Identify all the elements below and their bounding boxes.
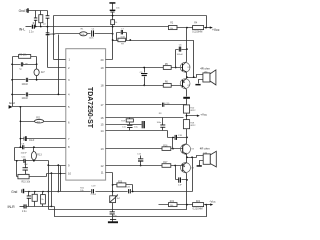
transistor Q1: [180, 62, 191, 73]
svg-text:R16: R16: [163, 145, 168, 147]
wire vA x48.3 down to rail1: [48, 166, 50, 210]
wire pin2: [48, 67, 66, 69]
capacitor row y64.3: [11, 62, 37, 70]
wire vD x58.3: [58, 166, 60, 192]
capacitor C19 on gnd row: [91, 185, 97, 196]
capacitor row A pin8: [15, 144, 66, 155]
capacitor C4: [89, 28, 95, 39]
wire pin18 row: [106, 85, 183, 86]
svg-text:R20: R20: [118, 181, 123, 183]
capacitor C20: [176, 166, 187, 187]
svg-text:0R22: 0R22: [190, 125, 196, 127]
transistor Q3: [181, 144, 195, 155]
mini network between pin16/pin14 rows: [121, 118, 138, 131]
svg-text:4R ohm: 4R ohm: [200, 146, 210, 150]
capacitor row pin3: [11, 78, 65, 86]
svg-text:IN-L: IN-L: [19, 27, 26, 31]
svg-text:IN-R: IN-R: [8, 205, 16, 209]
wire pin12 row: [106, 165, 183, 167]
svg-text:0R22: 0R22: [190, 110, 196, 112]
wire pin16 row: [106, 117, 184, 119]
wire bus3 x14.6: [14, 148, 16, 161]
capacitor C1 (IN-L coupling): [26, 23, 35, 34]
resistor R1 (oval): [80, 29, 87, 36]
resistor R2: [169, 22, 178, 30]
svg-text:18: 18: [101, 84, 105, 88]
resistor R20 row y184.9: [113, 181, 134, 192]
svg-text:Gnd: Gnd: [9, 101, 15, 105]
IC pin numbers right 20-11: [101, 58, 105, 175]
wire v187 (+Vcc node down to Q1 collector): [186, 28, 188, 62]
wire pin10: [47, 173, 66, 175]
wire Q1 emitter to output row: [186, 73, 188, 78]
svg-text:20: 20: [101, 58, 105, 62]
svg-text:R9 10k: R9 10k: [19, 54, 27, 56]
wire feedback rail y40 to output: [131, 41, 194, 78]
wire bottom gnd row y191.5 (to bottom feedback corner): [25, 191, 193, 193]
resistor on v112: [110, 195, 121, 203]
below-IC network: vertical x112.2 from pin11: [106, 173, 113, 222]
wire pin20 chain vertical x112.6: [106, 4, 113, 60]
wire v3 (row34.3 to pin4): [58, 35, 60, 95]
svg-text:10: 10: [68, 172, 72, 176]
resistor R9 row: [13, 54, 37, 64]
resistor R24 0.22OHM: [193, 201, 204, 211]
svg-text:+Vcc: +Vcc: [212, 28, 220, 32]
svg-text:100nF: 100nF: [177, 54, 184, 56]
resistor (bottom input bias): [32, 192, 37, 207]
svg-text:R11: R11: [36, 117, 41, 120]
ground bar under Q2: [183, 97, 190, 99]
node Gnd (bottom-left tag): [11, 189, 24, 194]
capacitor C7 (feedback): [117, 29, 127, 41]
svg-text:12: 12: [101, 164, 105, 168]
resistor R7 (oval, vertical): [34, 65, 45, 80]
wire row y33.8 (to pin20 vertical): [46, 34, 113, 35]
IC pin numbers left 1-10: [68, 58, 72, 176]
svg-text:0.22OHM: 0.22OHM: [192, 32, 202, 34]
svg-text:13: 13: [101, 147, 105, 151]
output row 1: [187, 75, 203, 78]
svg-text:1uF: 1uF: [24, 164, 28, 166]
svg-text:0.22OHM: 0.22OHM: [193, 209, 203, 211]
wire Gnd row pin5: [13, 106, 66, 108]
wire IN-R row: [27, 206, 55, 208]
wire pin19 row: [106, 67, 183, 69]
node +Vcc mid: [186, 112, 208, 119]
capacitor 10uF row pin7: [20, 136, 66, 142]
capacitor on v112: [110, 211, 118, 217]
svg-text:1.2E: 1.2E: [23, 64, 28, 66]
wire vC + bottom rail2: [55, 205, 207, 217]
resistor R3: [39, 11, 43, 27]
wire v1 vertical (Gnd bus to pin2): [47, 11, 49, 68]
wire Q4 emitter up / collector down: [186, 158, 188, 205]
capacitor C2: [34, 11, 37, 27]
svg-text:10k: 10k: [81, 34, 84, 36]
capacitor (bottom input filter): [27, 192, 31, 207]
resistor on chain: [111, 20, 118, 25]
resistor R17: [162, 162, 171, 167]
svg-text:2.2uF: 2.2uF: [91, 194, 97, 196]
svg-text:14: 14: [101, 129, 105, 133]
node +Vcc: [207, 26, 220, 32]
node -Vcc: [207, 200, 216, 206]
svg-text:100nF: 100nF: [22, 84, 29, 86]
left feedback block: bus x12: [12, 57, 14, 107]
resistor R7b (feedback): [112, 38, 132, 45]
wire pin14 row + corner to C18: [106, 131, 187, 138]
wire v2 (rail 15.6 to pin1): [53, 16, 55, 60]
svg-text:R17: R17: [163, 162, 168, 164]
svg-text:1uF: 1uF: [178, 184, 182, 186]
capacitor C10 (pin16 to pin14 rows): [157, 113, 166, 131]
svg-text:16: 16: [101, 116, 105, 120]
resistor R11 row pin6: [20, 117, 66, 124]
node Gnd (top-left tag): [19, 8, 29, 13]
wire top rail y15.6: [54, 15, 207, 17]
capacitor C16: [23, 161, 31, 177]
wire bottom rail1: [49, 205, 187, 210]
svg-text:-Vcc: -Vcc: [209, 200, 216, 204]
wire v from C18 area down to Q3 base row: [172, 138, 174, 149]
svg-text:+Vcc: +Vcc: [200, 112, 207, 116]
resistor R4 0.22OHM: [192, 22, 203, 33]
speaker LS1: [195, 67, 216, 86]
capacitor C5: [175, 44, 187, 68]
wire pin9 + corner from row B: [49, 161, 66, 166]
capacitor row pin4: [11, 92, 65, 100]
speaker LS2: [197, 146, 217, 167]
wire long rail (input to R2 top-right): [35, 26, 169, 28]
svg-text:TDA7250-ST: TDA7250-ST: [86, 87, 93, 129]
svg-text:11: 11: [101, 171, 104, 175]
capacitor on v1 (lower): [46, 32, 50, 35]
capacitor on chain: [110, 7, 121, 12]
resistor R6: [163, 82, 171, 88]
svg-text:R15 10k: R15 10k: [22, 182, 31, 184]
svg-text:19: 19: [101, 66, 105, 70]
wire bus2 x20.4: [20, 107, 22, 148]
svg-text:R22: R22: [170, 201, 175, 203]
wire bus4 x16.8: [16, 161, 18, 177]
wire v187 boxB to Q3 collector and down: [186, 129, 188, 144]
ground symbol bottom-middle: [108, 219, 118, 223]
IC U1 TDA7250-ST body: [66, 49, 106, 180]
resistor (bottom input second box): [41, 192, 46, 207]
resistor box A (0.22 top): [183, 99, 196, 114]
svg-text:Gnd: Gnd: [11, 190, 17, 194]
svg-text:2.2u: 2.2u: [29, 31, 34, 33]
capacitor (right one on gnd row): [126, 187, 131, 194]
transistor Q2: [180, 79, 191, 90]
capacitor bold on pin15 row: [142, 121, 145, 128]
capacitor C9 (between pin19/pin18 rows): [140, 67, 148, 87]
svg-text:Gnd: Gnd: [19, 9, 25, 13]
wire Q3 emitter to output row2: [186, 155, 188, 158]
capacitor C15: [162, 103, 170, 107]
wire vB pin10 drop: [51, 174, 53, 207]
capacitor above pin12 row (x140.6): [137, 154, 143, 167]
svg-text:4R ohm: 4R ohm: [200, 67, 210, 71]
resistor R16: [162, 145, 171, 150]
-Vcc row: [159, 204, 207, 206]
capacitor row B pin9: [15, 156, 49, 166]
wire pin1: [54, 59, 66, 61]
svg-text:100nF: 100nF: [21, 153, 28, 155]
resistor R15 row C: [17, 174, 47, 184]
svg-text:2.2u: 2.2u: [22, 211, 27, 213]
svg-text:10uF: 10uF: [29, 140, 35, 142]
capacitor on v1 (upper): [46, 15, 50, 18]
wire pin17 row: [106, 104, 187, 106]
svg-text:15: 15: [101, 122, 105, 126]
capacitor C18: [175, 135, 188, 140]
ground bar top: [109, 2, 115, 4]
resistor box B (0.22 bottom): [183, 120, 196, 129]
wire pin13 row: [106, 148, 183, 150]
svg-text:4k7: 4k7: [41, 71, 46, 74]
resistor R5: [163, 64, 171, 69]
wire +Vcc rail corner: [206, 16, 208, 28]
output row 2: [187, 156, 204, 158]
svg-text:100nF: 100nF: [22, 98, 29, 100]
junction dots input rail: [35, 26, 37, 28]
capacitor (IN-R coupling): [20, 204, 28, 213]
node Gnd (left mid tag): [9, 101, 15, 109]
resistor R13 (oval, vertical): [31, 148, 42, 161]
svg-text:R24: R24: [196, 201, 201, 203]
wire +Vcc row: [177, 27, 207, 29]
svg-text:R13: R13: [37, 154, 42, 157]
label (left of C19): [80, 188, 85, 192]
wire bottom feedback v192.1: [192, 158, 194, 192]
resistor R22: [169, 201, 178, 207]
svg-text:17: 17: [101, 103, 105, 107]
wire pin15 row: [106, 124, 142, 126]
transistor Q4: [181, 163, 195, 174]
wire Gnd top-left to v1: [29, 10, 48, 12]
wire Q2 emitter up / collector down: [186, 78, 188, 97]
wire vE x60.6: [60, 166, 62, 192]
